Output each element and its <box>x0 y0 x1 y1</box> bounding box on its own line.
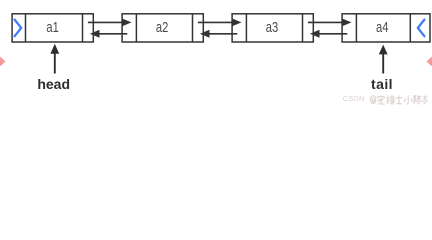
null prev chevron (blue) in a1 <box>15 20 22 37</box>
svg-text:tail: tail <box>371 76 393 92</box>
head pointer arrow <box>50 44 59 74</box>
next arrow a3 to a4 <box>308 18 352 26</box>
svg-text:a1: a1 <box>46 20 58 36</box>
watermark trailing glyph fragment <box>422 95 427 103</box>
svg-text:head: head <box>37 76 70 92</box>
node a2 box <box>122 14 203 42</box>
watermark glyph 博 <box>386 95 394 104</box>
svg-text:CSDN: CSDN <box>343 94 365 103</box>
prev arrow a2 to a1 <box>90 30 127 38</box>
node a4 box <box>342 14 430 42</box>
watermark glyph 宅 <box>377 95 384 104</box>
node a3 box <box>232 14 313 42</box>
left edge artifact mark <box>0 57 6 67</box>
prev arrow a4 to a3 <box>310 30 347 38</box>
watermark glyph 士 <box>396 96 403 104</box>
tail pointer arrow <box>379 45 388 74</box>
next arrow a2 to a3 <box>198 18 242 26</box>
next arrow a1 to a2 <box>88 18 132 26</box>
watermark @ sign <box>371 96 376 104</box>
watermark glyph 小 <box>404 95 412 104</box>
watermark glyph 陈 <box>414 95 421 104</box>
node a1 box <box>12 14 93 42</box>
svg-text:a4: a4 <box>376 20 388 36</box>
right edge artifact mark <box>427 57 432 67</box>
prev arrow a3 to a2 <box>200 30 237 38</box>
svg-text:a2: a2 <box>156 20 168 36</box>
null next chevron (blue) in a4 <box>418 20 425 37</box>
svg-text:a3: a3 <box>266 20 278 36</box>
